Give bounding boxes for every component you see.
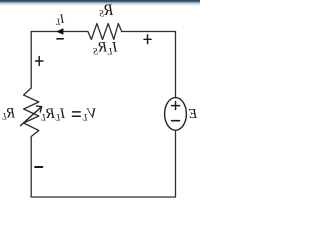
voltage source E ellipse: [165, 98, 187, 131]
plus sign near top of RL: [36, 57, 43, 66]
minus sign near bottom of RL: [35, 166, 42, 168]
wire: top left segment: [122, 31, 176, 33]
variable resistor arrow through RL: [21, 107, 42, 126]
plus inside source: [172, 102, 180, 110]
mirrored schematic group: [2, 2, 199, 197]
wire: left vertical below source: [175, 130, 177, 197]
wire: right vertical below RL: [30, 137, 32, 198]
resistor RS zigzag: [88, 24, 122, 40]
minus inside source: [172, 120, 180, 122]
wire: right vertical above RL: [30, 32, 32, 89]
current arrow IL on top wire: [57, 29, 63, 35]
minus under current arrow: [57, 38, 63, 40]
wire: top right segment: [31, 31, 88, 33]
svg-text:E: E: [188, 107, 198, 122]
equals sign: [73, 112, 81, 116]
resistor RL zigzag (load): [24, 88, 39, 137]
wire: left vertical above source: [175, 32, 177, 98]
top window gradient bar: [0, 0, 200, 7]
wire: bottom: [31, 196, 175, 198]
plus sign right of RS (top): [144, 35, 151, 44]
